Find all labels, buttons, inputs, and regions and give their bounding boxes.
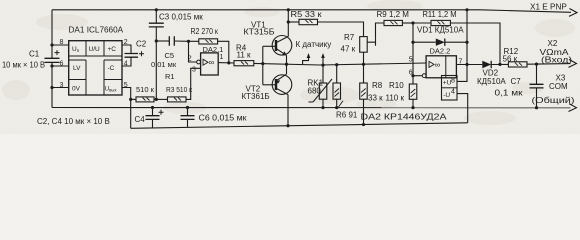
svg-text:DA1 ICL7660A: DA1 ICL7660A xyxy=(69,26,124,35)
terminal arrow 1 to sensor xyxy=(303,56,309,65)
svg-text:Uвых: Uвых xyxy=(105,87,118,93)
capacitor C1 xyxy=(45,58,60,62)
node: V+ vertical on top rail xyxy=(465,8,468,11)
op-amp DA2.1 box xyxy=(201,53,219,75)
wire: emitters vertical xyxy=(286,55,288,74)
resistor R2 xyxy=(199,39,218,44)
svg-text:R2 270 к: R2 270 к xyxy=(191,27,219,36)
svg-text:КТ361Б: КТ361Б xyxy=(242,92,270,101)
polarity + of C1 xyxy=(55,50,60,55)
wire: pin5 down to V- rail xyxy=(122,88,131,129)
DA2 power box xyxy=(442,76,458,101)
wire: RK1 bottom to GND rail xyxy=(322,99,324,107)
wire: pin2 to C2 xyxy=(122,45,131,54)
IC DA1 internal cell lines xyxy=(69,41,122,95)
node: junction bases / R4 xyxy=(261,62,264,65)
wire: R2 right down to DA2.1 output xyxy=(218,41,229,62)
wire: node Y down to pin2 DA2.1 xyxy=(189,41,197,62)
svg-text:R10: R10 xyxy=(389,81,404,90)
svg-text:11 к: 11 к xyxy=(237,51,252,60)
diode VD2 KD510A xyxy=(482,61,491,68)
terminal X1 arrow xyxy=(569,9,577,17)
wire: pin6 stub xyxy=(52,65,69,67)
svg-text:6: 6 xyxy=(409,69,413,76)
svg-text:3: 3 xyxy=(60,82,64,89)
wire: VT2 base stub xyxy=(263,84,276,86)
svg-text:VD1 КД510А: VD1 КД510А xyxy=(417,26,464,35)
svg-text:0,1 мк: 0,1 мк xyxy=(495,89,524,98)
wire: R3 right up to pin3 DA2.1 xyxy=(186,68,201,99)
wire: pin3 stub xyxy=(52,87,69,89)
node: R10 on GND rail xyxy=(411,106,414,109)
wire: C2 to pin4 xyxy=(122,57,131,66)
svg-text:10 мк × 10 В: 10 мк × 10 В xyxy=(2,61,45,70)
node: C6 on GND rail xyxy=(186,106,189,109)
svg-text:C1: C1 xyxy=(29,50,40,59)
wire: pin4 down to V- rail xyxy=(457,94,468,123)
node Y: junction C5/R2/pin2 xyxy=(187,40,190,43)
label R6 91 with leader xyxy=(339,101,344,107)
wire: R8 bottom to V- rail (crossing GND) xyxy=(363,99,365,124)
wire: bases vertical VT1/VT2 xyxy=(262,46,264,85)
wire: V+ vertical to DA2 power pin 8 xyxy=(457,10,467,82)
svg-text:8: 8 xyxy=(60,39,64,46)
svg-text:C2: C2 xyxy=(136,40,147,49)
svg-text:LV: LV xyxy=(73,65,81,72)
node: R8 on V- rail xyxy=(362,123,365,126)
node: junction R7/R8/sensor line xyxy=(362,63,365,66)
thermistor RK1 xyxy=(322,65,324,83)
wire: R10 from pin6 node xyxy=(412,76,414,84)
node: RK1 on GND rail xyxy=(321,106,324,109)
polarity + of C2 xyxy=(139,51,144,56)
wire: R10 bottom to GND rail xyxy=(412,99,414,107)
svg-text:DA2.2: DA2.2 xyxy=(430,47,451,56)
terminal X3 arrow xyxy=(569,104,577,112)
node: R11 on output line xyxy=(498,63,501,66)
svg-text:∞: ∞ xyxy=(209,58,215,67)
trimmer R7 xyxy=(360,37,368,53)
wire: R1 left to pin5 line xyxy=(131,98,136,100)
svg-text:∞: ∞ xyxy=(435,60,441,69)
svg-text:VD2: VD2 xyxy=(483,68,499,77)
svg-text:R9 1,2 М: R9 1,2 М xyxy=(377,10,410,19)
svg-text:Uп: Uп xyxy=(72,46,80,53)
wire: C6 leads xyxy=(187,108,189,128)
wire: DA2.1 output / sensor line (sagging) xyxy=(218,63,426,65)
transistor VT2 KT361B xyxy=(272,75,292,95)
op-amp DA2.2 symbol xyxy=(429,61,434,67)
wire: C5 to node Y xyxy=(174,40,188,42)
node: VT2 collector on V- rail xyxy=(286,124,289,127)
wire: inverting node vertical (R9/R11 to pin6/R10) xyxy=(412,23,414,76)
svg-text:R11 1,2 М: R11 1,2 М xyxy=(423,10,457,19)
svg-text:R5 33 к: R5 33 к xyxy=(291,10,323,19)
node: VT1 collector on V+ rail xyxy=(287,8,290,11)
wire: left edge / V+ to C1 xyxy=(51,10,53,59)
svg-text:8: 8 xyxy=(451,78,455,85)
node: C7 on GND rail xyxy=(535,106,538,109)
node: arrow2 junction on sensor line xyxy=(321,64,324,67)
wire: R1 to R3 xyxy=(154,98,168,100)
wire: V- bottom rail xyxy=(131,123,468,129)
resistor R6 xyxy=(336,65,338,83)
node: C7 junction on X2 line xyxy=(535,63,538,66)
wire: top V+ rail xyxy=(52,10,571,13)
wire: C3 bottom to node X xyxy=(155,27,157,41)
svg-text:0V: 0V xyxy=(72,86,81,93)
svg-text:5: 5 xyxy=(409,57,413,64)
resistor R11 xyxy=(413,22,431,24)
op-amp DA2.2 box xyxy=(426,56,456,78)
node: R6 on GND rail xyxy=(335,106,338,109)
svg-text:R1: R1 xyxy=(165,72,175,81)
svg-text:+C: +C xyxy=(108,46,117,53)
IC DA1 ICL7660A outer box xyxy=(69,41,122,95)
resistor R12 xyxy=(508,62,527,67)
wire: C4 leads xyxy=(152,108,154,128)
node: blob at output crossing xyxy=(465,63,468,66)
node: R9/R11 junction xyxy=(411,21,414,24)
svg-text:X2: X2 xyxy=(548,39,558,48)
node: pin6 junction xyxy=(411,74,414,77)
node X vertical: C3/C5 junction down to R1/R3 xyxy=(155,41,157,99)
svg-text:33 к: 33 к xyxy=(368,94,383,103)
svg-text:C2, C4 10 мк × 10 В: C2, C4 10 мк × 10 В xyxy=(37,117,110,126)
svg-text:C7: C7 xyxy=(511,77,522,86)
capacitor C6 xyxy=(181,116,195,120)
svg-text:C5: C5 xyxy=(165,51,175,60)
wire: DA2.2 output pin7 xyxy=(456,64,482,66)
svg-text:R8: R8 xyxy=(372,81,383,90)
op-amp DA2.1 symbol xyxy=(203,59,208,65)
node: C4 on GND rail xyxy=(151,106,154,109)
resistor R10 xyxy=(409,84,417,99)
resistor R4 xyxy=(234,61,254,66)
node: junction pin5 line / R1 xyxy=(129,98,132,101)
resistor R8 xyxy=(363,64,365,83)
R7 wiper tap xyxy=(367,39,375,46)
svg-text:(Общий): (Общий) xyxy=(532,96,575,105)
wire: R11 feedback down to VD2 cathode node xyxy=(450,23,500,64)
inverting input circle DA2.1 xyxy=(197,60,201,64)
svg-text:-C: -C xyxy=(108,65,115,72)
node: emitters on sensor line xyxy=(285,63,288,66)
svg-text:DA2 КР1446УД2А: DA2 КР1446УД2А xyxy=(361,112,448,122)
node: junction R1/R3/node-X xyxy=(155,98,158,101)
transistor VT1 KT315B xyxy=(272,36,292,56)
resistor R3 xyxy=(168,97,187,102)
terminal arrow 2 to sensor xyxy=(322,56,324,65)
svg-text:COM: COM xyxy=(549,82,568,91)
wire: VD1 cathode to V+ vertical xyxy=(445,41,467,43)
node: junction C1- / pin6 xyxy=(50,64,53,67)
node: VD1 tap xyxy=(411,41,414,44)
wire: R6 bottom to GND rail xyxy=(336,99,338,107)
svg-text:C6 0,015 мк: C6 0,015 мк xyxy=(199,113,248,122)
svg-text:2: 2 xyxy=(188,55,192,62)
svg-text:47 к: 47 к xyxy=(341,45,356,54)
polarity + of C4 xyxy=(159,110,164,115)
node: junction V+ / C1 / pin8 xyxy=(50,43,53,46)
wire: C3 top to V+ rail xyxy=(155,10,157,23)
svg-text:6: 6 xyxy=(60,60,64,67)
svg-text:R3 510 к: R3 510 к xyxy=(166,85,193,94)
wire: node Y to R2 xyxy=(189,40,199,42)
svg-text:C3 0,015 мк: C3 0,015 мк xyxy=(159,13,203,22)
capacitor C2 xyxy=(125,54,139,58)
svg-text:C4: C4 xyxy=(135,115,146,124)
wire: VT1 collector to V+ rail xyxy=(287,10,289,37)
svg-text:3: 3 xyxy=(192,67,196,74)
node: VD1 on V+ vertical xyxy=(465,41,468,44)
svg-text:U/U: U/U xyxy=(89,46,101,53)
node: C3 on V+ rail xyxy=(155,8,158,11)
svg-text:56 к: 56 к xyxy=(503,55,518,64)
diode VD1 KD510A xyxy=(436,39,445,46)
resistor R5 xyxy=(288,21,299,23)
terminal X2 arrow xyxy=(569,60,577,68)
svg-text:0,01 мк: 0,01 мк xyxy=(151,60,177,69)
wire: GND middle rail to X3 xyxy=(52,107,571,109)
wire: VT2 collector to V- rail xyxy=(287,95,289,126)
node: junction GND / pin3 xyxy=(50,86,53,89)
node: junction C3/C5/node-X xyxy=(155,39,158,42)
wire: R7 wiper up to R9 xyxy=(376,23,385,39)
svg-text:110 к: 110 к xyxy=(386,94,405,103)
wire: node X to C5 xyxy=(156,40,169,42)
resistor R9 xyxy=(384,20,402,25)
wire: VD2 cathode to R12 xyxy=(491,63,508,65)
capacitor C3 xyxy=(149,23,164,27)
inverting input circle DA2.2 xyxy=(422,74,426,78)
wire: pin8 stub xyxy=(52,44,69,46)
wire: R7 bottom to sensor line xyxy=(363,52,365,64)
wire: R9 to node R9/R11 xyxy=(402,22,413,24)
svg-text:R7: R7 xyxy=(344,33,355,42)
scan background noise xyxy=(0,0,1,1)
svg-text:X1 E PNP: X1 E PNP xyxy=(530,2,567,11)
wire: C1 down to ground rail xyxy=(51,62,53,107)
resistor R1 xyxy=(136,97,154,102)
wire: R5 right down to R7 xyxy=(318,22,364,37)
wire: R12 to X2 arrow xyxy=(527,63,571,66)
node: junction R2 feedback on output xyxy=(227,61,230,64)
svg-text:R6 91: R6 91 xyxy=(336,111,358,120)
svg-text:510 к: 510 к xyxy=(136,85,155,94)
svg-text:680: 680 xyxy=(308,87,322,96)
svg-text:КТ315Б: КТ315Б xyxy=(244,28,275,37)
wire: VD1 anode xyxy=(413,41,436,43)
svg-text:КД510А: КД510А xyxy=(477,77,506,86)
capacitor C7 xyxy=(536,64,538,84)
svg-text:(Вход): (Вход) xyxy=(541,56,572,65)
svg-text:-U: -U xyxy=(443,92,450,99)
svg-text:DA2.1: DA2.1 xyxy=(203,45,224,54)
capacitor C4 xyxy=(146,116,160,120)
svg-text:К датчику: К датчику xyxy=(296,40,332,49)
svg-text:4: 4 xyxy=(451,88,455,95)
capacitor C5 xyxy=(169,36,174,46)
svg-text:1: 1 xyxy=(220,54,224,61)
wire: pin6 stub to DA2.2 xyxy=(413,75,422,77)
